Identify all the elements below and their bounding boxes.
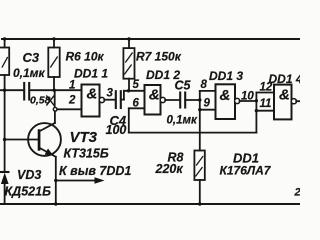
svg-text:R7 150к: R7 150к — [136, 50, 182, 64]
svg-text:0,58: 0,58 — [30, 95, 51, 107]
svg-text:DD1 1: DD1 1 — [74, 67, 108, 81]
svg-text:VT3: VT3 — [70, 129, 98, 146]
svg-text:100: 100 — [106, 123, 127, 137]
svg-text:0,1мк: 0,1мк — [13, 66, 46, 80]
svg-text:9: 9 — [204, 98, 211, 110]
svg-text:3: 3 — [107, 88, 114, 100]
svg-text:8: 8 — [201, 79, 208, 91]
svg-text:12: 12 — [260, 82, 273, 94]
svg-text:&: & — [87, 85, 98, 102]
svg-text:КТ315Б: КТ315Б — [64, 147, 109, 161]
svg-text:5: 5 — [133, 79, 140, 91]
svg-text:&: & — [149, 87, 160, 104]
svg-text:VD3: VD3 — [17, 168, 41, 182]
svg-text:&: & — [279, 87, 290, 104]
svg-text:КД521Б: КД521Б — [5, 185, 52, 199]
svg-text:К выв 7DD1: К выв 7DD1 — [59, 164, 131, 178]
svg-text:0,1мк: 0,1мк — [167, 115, 198, 127]
svg-text:DD1 4: DD1 4 — [269, 72, 301, 86]
svg-text:R6 10к: R6 10к — [66, 50, 105, 64]
svg-text:2: 2 — [294, 187, 301, 199]
svg-text:DD1 3: DD1 3 — [209, 69, 243, 83]
svg-text:220к: 220к — [155, 162, 184, 176]
svg-text:2: 2 — [68, 95, 76, 107]
svg-text:6: 6 — [133, 98, 140, 110]
svg-text:10: 10 — [241, 91, 254, 103]
svg-text:С3: С3 — [23, 50, 40, 65]
svg-text:&: & — [220, 87, 231, 104]
svg-text:К176ЛА7: К176ЛА7 — [220, 164, 272, 178]
svg-text:11: 11 — [260, 98, 272, 110]
svg-text:1: 1 — [69, 80, 75, 92]
svg-text:С5: С5 — [175, 79, 192, 93]
